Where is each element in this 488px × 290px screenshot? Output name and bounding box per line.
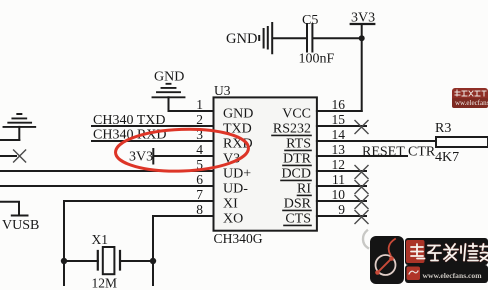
wire crystal right leg xyxy=(120,261,153,285)
no-connect X pin15 xyxy=(355,121,368,134)
svg-text:RESET CTR: RESET CTR xyxy=(362,145,436,160)
wire pin14 to R3 xyxy=(317,140,436,142)
svg-text:CH340G: CH340G xyxy=(214,231,263,246)
wire pin2 CH340TXD xyxy=(92,125,214,127)
IC U3 CH340G body xyxy=(214,83,317,246)
svg-text:DTR: DTR xyxy=(283,152,312,167)
svg-text:100nF: 100nF xyxy=(299,52,335,67)
svg-text:6: 6 xyxy=(196,172,203,187)
svg-text:10: 10 xyxy=(332,187,346,202)
svg-text:13: 13 xyxy=(332,142,346,157)
svg-text:9: 9 xyxy=(338,202,345,217)
no-connect X left edge xyxy=(14,150,26,162)
watermark text block 电子发烧友 xyxy=(405,238,488,265)
watermark small tile right edge xyxy=(452,88,488,108)
svg-text:XI: XI xyxy=(223,197,238,212)
no-connect X pin10 xyxy=(355,196,368,209)
wire pin7 XI to crystal xyxy=(64,201,214,261)
svg-text:8: 8 xyxy=(196,202,203,217)
wire pin13 RESET CTR xyxy=(317,155,407,157)
svg-text:CTS: CTS xyxy=(285,212,311,227)
junction crystal left xyxy=(61,258,67,264)
wire crystal left leg xyxy=(64,261,98,285)
capacitor C5 xyxy=(299,13,335,67)
svg-text:U3: U3 xyxy=(214,83,231,98)
svg-text:UD+: UD+ xyxy=(223,167,251,182)
junction crystal right xyxy=(150,258,156,264)
wire pin1 to ground xyxy=(169,110,214,112)
svg-text:RS232: RS232 xyxy=(273,122,311,137)
annotation red ellipse around 3V3/V3 xyxy=(115,127,249,173)
ground GND (above U3 pin1) xyxy=(153,70,185,112)
pin name DCD (pin12) xyxy=(281,167,311,182)
node 3V3 label at pin4 xyxy=(129,149,153,165)
pin name RI (pin11) xyxy=(297,182,311,197)
svg-text:ww.elecfans.c: ww.elecfans.c xyxy=(455,99,488,107)
no-connect X pin12 xyxy=(355,166,368,179)
svg-text:UD-: UD- xyxy=(223,182,248,197)
svg-text:12M: 12M xyxy=(92,276,118,290)
node VUSB stub xyxy=(0,202,39,233)
wire pin3 CH340RXD xyxy=(92,140,214,142)
no-connect X pin9 xyxy=(355,211,368,224)
pin name RS232 (pin15) xyxy=(272,122,311,137)
svg-text:11: 11 xyxy=(332,172,345,187)
svg-text:4: 4 xyxy=(196,142,203,157)
wire pin10 xyxy=(317,200,366,202)
svg-text:VUSB: VUSB xyxy=(2,218,39,233)
wire left-edge ground xyxy=(0,139,19,141)
wire left-edge nc stub xyxy=(0,155,16,157)
resistor R3 xyxy=(435,121,488,165)
svg-text:4K7: 4K7 xyxy=(435,150,459,165)
watermark gray sprout arc xyxy=(363,231,368,249)
ground (left edge) xyxy=(4,114,36,140)
pin name DTR (pin13) xyxy=(283,152,312,167)
wire pin9 xyxy=(317,215,366,217)
wire C5 to 3V3 rail xyxy=(313,37,361,39)
svg-text:XO: XO xyxy=(223,212,243,227)
svg-text:DSR: DSR xyxy=(284,197,312,212)
wire pin16 VCC to 3V3 rail xyxy=(317,110,362,112)
svg-text:RI: RI xyxy=(297,182,311,197)
wire GND to C5 xyxy=(273,37,306,39)
svg-text:15: 15 xyxy=(332,112,346,127)
svg-text:DCD: DCD xyxy=(281,167,311,182)
svg-text:GND: GND xyxy=(226,31,257,47)
svg-text:RTS: RTS xyxy=(286,137,311,152)
wire pin4 xyxy=(153,155,213,157)
svg-text:14: 14 xyxy=(332,127,346,142)
svg-text:R3: R3 xyxy=(435,121,451,136)
watermark url block www.elecfans.com xyxy=(405,265,488,283)
crystal X1 12M xyxy=(92,232,121,290)
wire pin12 xyxy=(317,170,366,172)
svg-text:16: 16 xyxy=(332,97,346,112)
power 3V3 (net label with bar) xyxy=(351,11,375,112)
wire pin8 XO to crystal xyxy=(153,216,214,261)
svg-text:VCC: VCC xyxy=(282,107,311,122)
svg-text:1: 1 xyxy=(196,97,203,112)
no-connect X pin11 xyxy=(355,181,368,194)
svg-text:12: 12 xyxy=(332,157,346,172)
pin name RTS (pin14) xyxy=(285,137,311,152)
wire pin11 xyxy=(317,185,366,187)
ground GND (top, left of C5, rotated earth symbol) xyxy=(226,23,272,53)
pin name DSR (pin10) xyxy=(283,197,312,212)
svg-text:3V3: 3V3 xyxy=(129,150,153,165)
pin name CTS (pin9) xyxy=(284,212,311,227)
wire pin5 UD+ xyxy=(0,170,214,172)
svg-text:C5: C5 xyxy=(302,13,318,28)
junction dot at 3V3/C5 node xyxy=(359,35,365,41)
svg-text:7: 7 xyxy=(196,187,203,202)
watermark pseudo glyphs 电子发烧友 xyxy=(411,244,488,262)
svg-text:X1: X1 xyxy=(92,232,109,247)
wire pin15 xyxy=(317,125,366,127)
svg-text:2: 2 xyxy=(196,112,203,127)
svg-text:GND: GND xyxy=(223,107,253,122)
watermark logo block (elecfans) xyxy=(370,236,404,284)
wire pin6 UD- xyxy=(0,185,214,187)
svg-text:GND: GND xyxy=(154,70,184,85)
svg-text:www.elecfans.com: www.elecfans.com xyxy=(423,271,483,280)
